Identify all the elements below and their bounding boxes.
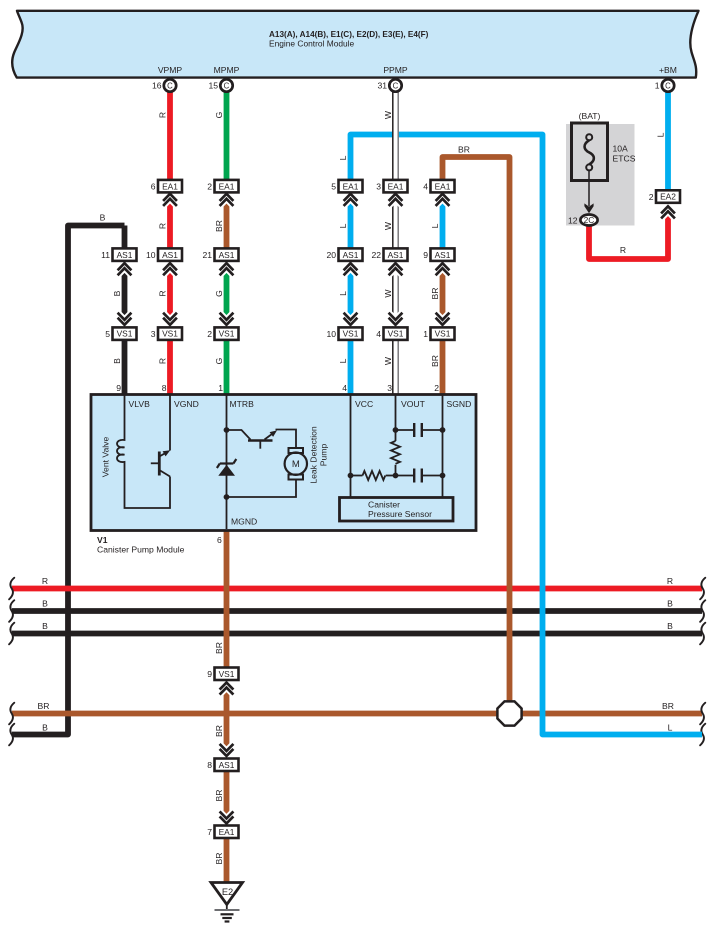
vent valve coil and VLVB internal wiring bbox=[117, 396, 170, 509]
svg-text:W: W bbox=[383, 356, 393, 365]
wire L blue from connector EA1-5 over x542.5 down and right to frame edge bbox=[351, 135, 703, 735]
svg-text:MTRB: MTRB bbox=[230, 399, 255, 409]
connector chevrons above AS1 pin 8 bbox=[220, 744, 234, 756]
svg-text:MGND: MGND bbox=[231, 517, 257, 527]
svg-text:EA1: EA1 bbox=[219, 181, 235, 191]
svg-text:B: B bbox=[112, 358, 122, 364]
pin 31 (C) PPMP bbox=[377, 79, 401, 91]
svg-text:BR: BR bbox=[214, 220, 224, 232]
ECM band (Engine Control Module) bbox=[12, 11, 698, 78]
svg-text:EA1: EA1 bbox=[435, 181, 451, 191]
connector chevrons below AS1 pin 20 bbox=[344, 263, 358, 275]
resistor R1 (vertical on VOUT) bbox=[391, 441, 400, 464]
connector VS1 pin 3 bbox=[151, 327, 182, 340]
svg-text:L: L bbox=[668, 722, 673, 732]
connector chevrons below EA2 pin 2 bbox=[661, 206, 675, 218]
svg-text:2: 2 bbox=[207, 329, 212, 339]
node junction SGND-C2 bbox=[440, 473, 446, 479]
svg-text:4: 4 bbox=[423, 181, 428, 191]
connector chevrons below EA1 pin 4 bbox=[436, 194, 450, 206]
connector VS1 pin 2 bbox=[207, 327, 238, 340]
pin 15 (C) MPMP bbox=[208, 79, 232, 91]
svg-text:2: 2 bbox=[434, 383, 439, 393]
transistor Q1 collector arrow bbox=[163, 450, 171, 456]
svg-text:3: 3 bbox=[387, 383, 392, 393]
break mark right end of black bus 1 bbox=[700, 600, 705, 622]
svg-text:15: 15 bbox=[208, 81, 218, 91]
connector chevrons above VS1 pin 3 bbox=[163, 313, 177, 325]
wire B black column x124.5 down to module pin 9 bbox=[122, 226, 128, 398]
svg-text:EA1: EA1 bbox=[162, 181, 178, 191]
svg-text:VOUT: VOUT bbox=[401, 399, 426, 409]
svg-text:B: B bbox=[42, 599, 48, 609]
fuse block background (junction block) bbox=[566, 124, 635, 226]
resistor R2 (VCC to VOUT horizontal) bbox=[351, 471, 396, 480]
node junction MTRB top bbox=[224, 427, 230, 433]
connector chevrons below EA1 pin 2 bbox=[220, 194, 234, 206]
capacitor C1 (VOUT to SGND upper) bbox=[396, 423, 443, 437]
svg-text:G: G bbox=[214, 357, 224, 364]
connector chevrons below VS1 pin 9 bbox=[220, 683, 234, 695]
svg-text:G: G bbox=[214, 111, 224, 118]
wire BR brown from AS1-9 to module pin 2 bbox=[440, 255, 446, 397]
svg-text:G: G bbox=[214, 290, 224, 297]
connector VS1 pin 4 bbox=[376, 327, 407, 340]
svg-text:VS1: VS1 bbox=[343, 329, 359, 339]
connector chevrons below EA1 pin 6 bbox=[163, 194, 177, 206]
svg-text:VPMP: VPMP bbox=[158, 65, 183, 75]
svg-text:C: C bbox=[665, 81, 671, 90]
svg-text:W: W bbox=[383, 110, 393, 119]
module V1 Canister Pump Module box bbox=[91, 395, 476, 531]
svg-text:9: 9 bbox=[207, 669, 212, 679]
wire R red from EA2 to fuse terminal 12 (2C) bbox=[589, 215, 668, 259]
svg-text:MPMP: MPMP bbox=[214, 65, 240, 75]
svg-text:AS1: AS1 bbox=[162, 250, 178, 260]
break mark left end of brown bus bbox=[9, 703, 14, 725]
connector EA1 pin 4 bbox=[423, 180, 454, 193]
connector EA2 pin 2 bbox=[649, 190, 680, 203]
svg-text:BR: BR bbox=[458, 144, 470, 154]
node VOUT internal wire lower bbox=[395, 465, 397, 476]
svg-text:R: R bbox=[158, 112, 168, 118]
pin 16 (C) VPMP bbox=[152, 79, 176, 91]
connector AS1 pin 20 bbox=[326, 248, 362, 261]
wire G green MPMP upper segment bbox=[224, 86, 230, 187]
connector VS1 pin 10 bbox=[326, 327, 362, 340]
node VGND internal wire bbox=[169, 396, 171, 451]
svg-text:4: 4 bbox=[376, 329, 381, 339]
connector chevrons above EA1 pin 7 bbox=[220, 811, 234, 823]
svg-text:6: 6 bbox=[217, 535, 222, 545]
wire L blue VCC column from EA1-5 down to module pin 4 bbox=[348, 186, 354, 397]
node junction VOUT-R2-C2 bbox=[393, 473, 399, 479]
svg-text:B: B bbox=[667, 599, 673, 609]
svg-text:B: B bbox=[667, 621, 673, 631]
svg-text:VS1: VS1 bbox=[219, 329, 235, 339]
svg-text:BR: BR bbox=[662, 701, 674, 711]
svg-text:R: R bbox=[667, 576, 673, 586]
svg-text:VS1: VS1 bbox=[117, 329, 133, 339]
svg-text:3: 3 bbox=[376, 181, 381, 191]
capacitor C2 (VOUT to SGND lower) bbox=[396, 469, 443, 483]
svg-text:L: L bbox=[338, 155, 348, 160]
svg-text:2: 2 bbox=[207, 181, 212, 191]
svg-text:VLVB: VLVB bbox=[129, 399, 151, 409]
svg-text:PPMP: PPMP bbox=[383, 65, 408, 75]
svg-text:Engine Control Module: Engine Control Module bbox=[269, 39, 355, 49]
node VCC internal wire bbox=[350, 396, 352, 498]
connector EA1 pin 5 bbox=[331, 180, 362, 193]
svg-text:(BAT): (BAT) bbox=[579, 111, 601, 121]
svg-text:11: 11 bbox=[101, 250, 110, 260]
svg-text:AS1: AS1 bbox=[219, 760, 235, 770]
transistor Q2 (pump motor driver) bbox=[227, 430, 297, 449]
break mark left end of black bus 2 bbox=[9, 623, 14, 645]
svg-text:V1: V1 bbox=[97, 535, 108, 545]
motor M (leak detection pump) bbox=[285, 448, 307, 480]
wire B black bus 2 horizontal y633.5 bbox=[12, 631, 702, 637]
svg-text:W: W bbox=[383, 221, 393, 230]
svg-text:R: R bbox=[158, 358, 168, 364]
zener diode D1 bbox=[217, 459, 236, 476]
wire BR brown bus horizontal y713.5 bbox=[12, 711, 702, 717]
break mark left end of red bus bbox=[9, 578, 14, 600]
svg-text:22: 22 bbox=[371, 250, 381, 260]
connector AS1 pin 11 bbox=[101, 248, 136, 261]
transistor Q1 (vent valve driver) bbox=[151, 452, 170, 477]
svg-text:21: 21 bbox=[202, 250, 212, 260]
svg-text:Pressure Sensor: Pressure Sensor bbox=[368, 509, 432, 519]
svg-text:1: 1 bbox=[423, 329, 428, 339]
svg-text:Canister: Canister bbox=[368, 500, 400, 510]
connector VS1 pin 9 bbox=[207, 668, 238, 681]
wire B black bus 1 horizontal y611 bbox=[12, 608, 702, 614]
break mark right end of red bus bbox=[700, 578, 705, 600]
connector chevrons below AS1 pin 10 bbox=[163, 263, 177, 275]
svg-text:BR: BR bbox=[38, 701, 50, 711]
break mark right end of black bus 2 bbox=[700, 623, 705, 645]
svg-text:C: C bbox=[393, 81, 399, 90]
svg-text:VS1: VS1 bbox=[162, 329, 178, 339]
svg-text:5: 5 bbox=[331, 181, 336, 191]
break mark left end of black bottom stub bbox=[9, 724, 14, 746]
svg-text:VS1: VS1 bbox=[388, 329, 404, 339]
svg-text:2C: 2C bbox=[584, 215, 595, 225]
junction connector (octagon) on brown bus bbox=[497, 701, 521, 725]
svg-text:6: 6 bbox=[151, 181, 156, 191]
wire R red bus horizontal y588.5 bbox=[12, 586, 702, 592]
connector chevrons below AS1 pin 9 bbox=[436, 263, 450, 275]
svg-text:BR: BR bbox=[430, 288, 440, 300]
svg-text:+BM: +BM bbox=[659, 65, 677, 75]
connector AS1 pin 22 bbox=[371, 248, 407, 261]
svg-text:L: L bbox=[656, 132, 666, 137]
svg-text:1: 1 bbox=[218, 383, 223, 393]
connector chevrons below AS1 pin 22 bbox=[389, 263, 403, 275]
svg-text:BR: BR bbox=[430, 355, 440, 367]
wire BR brown MGND column x226.5 module to ground bbox=[224, 528, 230, 884]
svg-text:EA1: EA1 bbox=[343, 181, 359, 191]
wire from fuse to terminal 12 bbox=[588, 170, 590, 206]
connector VS1 pin 5 bbox=[105, 327, 136, 340]
svg-text:12: 12 bbox=[568, 215, 578, 225]
svg-text:AS1: AS1 bbox=[388, 250, 404, 260]
svg-text:31: 31 bbox=[377, 81, 387, 91]
svg-text:10A: 10A bbox=[613, 144, 629, 154]
svg-text:BR: BR bbox=[214, 725, 224, 737]
canister pressure sensor box bbox=[340, 498, 454, 522]
connector AS1 pin 9 bbox=[423, 248, 454, 261]
wire motor to MGND bbox=[227, 480, 297, 498]
svg-text:20: 20 bbox=[326, 250, 336, 260]
fuse 10A ETCS body bbox=[572, 123, 608, 181]
svg-text:VCC: VCC bbox=[355, 399, 373, 409]
svg-text:8: 8 bbox=[207, 760, 212, 770]
svg-text:BR: BR bbox=[214, 642, 224, 654]
ground E2 bbox=[211, 883, 243, 922]
svg-text:VS1: VS1 bbox=[435, 329, 451, 339]
connector chevrons above VS1 pin 1 bbox=[436, 313, 450, 325]
svg-text:Pump: Pump bbox=[319, 444, 329, 467]
wire BR brown from connector EA1-4 up over to x509.5 down to junction bbox=[443, 157, 510, 714]
node SGND internal wire bbox=[442, 396, 444, 498]
connector EA1 pin 3 bbox=[376, 180, 407, 193]
svg-text:EA2: EA2 bbox=[660, 192, 676, 202]
svg-text:8: 8 bbox=[162, 383, 167, 393]
svg-text:L: L bbox=[338, 291, 348, 296]
node junction VCC-R2 bbox=[348, 473, 354, 479]
svg-text:R: R bbox=[158, 290, 168, 296]
svg-text:Leak Detection: Leak Detection bbox=[309, 426, 319, 484]
wire BR brown between EA1-2 and AS1-21 bbox=[224, 186, 230, 255]
svg-text:AS1: AS1 bbox=[219, 250, 235, 260]
svg-text:Vent Valve: Vent Valve bbox=[101, 437, 111, 478]
connector chevrons above VS1 pin 10 bbox=[344, 313, 358, 325]
svg-text:R: R bbox=[158, 223, 168, 229]
svg-text:VS1: VS1 bbox=[219, 669, 235, 679]
svg-text:4: 4 bbox=[342, 383, 347, 393]
node junction MGND bottom bbox=[224, 494, 230, 500]
break mark right end of blue bus bbox=[700, 724, 705, 746]
svg-text:10: 10 bbox=[326, 329, 336, 339]
node junction VOUT-C1 bbox=[393, 427, 399, 433]
connector AS1 pin 8 bbox=[207, 759, 238, 772]
connector chevrons above VS1 pin 5 bbox=[118, 313, 132, 325]
connector VS1 pin 1 bbox=[423, 327, 454, 340]
arrowhead into terminal 2C bbox=[584, 203, 593, 213]
node junction SGND-C1 bbox=[440, 427, 446, 433]
svg-text:BR: BR bbox=[214, 853, 224, 865]
connector EA1 pin 6 bbox=[151, 180, 182, 193]
svg-text:Canister Pump Module: Canister Pump Module bbox=[97, 545, 185, 555]
svg-text:W: W bbox=[383, 289, 393, 298]
svg-text:L: L bbox=[430, 223, 440, 228]
connector chevrons above VS1 pin 2 bbox=[220, 313, 234, 325]
svg-text:AS1: AS1 bbox=[435, 250, 451, 260]
connector chevrons below AS1 pin 21 bbox=[220, 263, 234, 275]
svg-text:AS1: AS1 bbox=[343, 250, 359, 260]
svg-text:9: 9 bbox=[116, 383, 121, 393]
connector chevrons below EA1 pin 5 bbox=[344, 194, 358, 206]
wire G green from AS1-21 to module pin 1 bbox=[224, 255, 230, 397]
svg-text:E2: E2 bbox=[222, 887, 233, 897]
svg-text:EA1: EA1 bbox=[388, 181, 404, 191]
wire B black from left frame to AS1-11 (vertical x68, horizontal y225.5, bottom stub y734.5) bbox=[12, 226, 125, 735]
connector AS1 pin 21 bbox=[202, 248, 238, 261]
svg-text:R: R bbox=[42, 576, 48, 586]
fuse element symbol bbox=[585, 134, 594, 170]
wire L blue between EA1-4 and AS1-9 bbox=[440, 186, 446, 255]
svg-text:BR: BR bbox=[214, 790, 224, 802]
connector AS1 pin 10 bbox=[146, 248, 182, 261]
pin 1 (C) +BM bbox=[655, 79, 674, 91]
svg-text:M: M bbox=[292, 459, 300, 470]
break mark right end of brown bus bbox=[700, 703, 705, 725]
svg-text:B: B bbox=[42, 722, 48, 732]
terminal 12 (2C) ellipse bbox=[568, 215, 598, 226]
wire W white PPMP column x395.5 (white wire with outline) bbox=[393, 86, 398, 398]
connector chevrons above VS1 pin 4 bbox=[389, 313, 403, 325]
svg-text:7: 7 bbox=[207, 827, 212, 837]
break mark left end of black bus 1 bbox=[9, 600, 14, 622]
svg-text:B: B bbox=[112, 290, 122, 296]
svg-text:AS1: AS1 bbox=[117, 250, 133, 260]
svg-text:B: B bbox=[42, 621, 48, 631]
node VOUT internal wire upper bbox=[395, 396, 397, 442]
svg-text:2: 2 bbox=[649, 192, 654, 202]
svg-text:R: R bbox=[620, 245, 626, 255]
connector chevrons below EA1 pin 3 bbox=[389, 194, 403, 206]
wire L blue from +BM pin to EA2 bbox=[665, 86, 671, 196]
svg-text:3: 3 bbox=[151, 329, 156, 339]
svg-text:L: L bbox=[338, 223, 348, 228]
svg-text:16: 16 bbox=[152, 81, 162, 91]
node MTRB/MGND internal wire bbox=[226, 396, 228, 530]
wire R red VPMP column x170 bbox=[167, 86, 173, 398]
connector EA1 pin 2 bbox=[207, 180, 238, 193]
connector chevrons below AS1 pin 11 bbox=[118, 263, 132, 275]
svg-text:EA1: EA1 bbox=[219, 827, 235, 837]
svg-text:B: B bbox=[100, 212, 106, 222]
label Leak Detection Pump bbox=[309, 426, 329, 484]
svg-text:C: C bbox=[167, 81, 173, 90]
svg-text:VGND: VGND bbox=[174, 399, 199, 409]
svg-text:SGND: SGND bbox=[447, 399, 472, 409]
svg-text:10: 10 bbox=[146, 250, 156, 260]
svg-text:5: 5 bbox=[105, 329, 110, 339]
svg-text:9: 9 bbox=[423, 250, 428, 260]
connector EA1 pin 7 bbox=[207, 826, 238, 839]
svg-text:C: C bbox=[224, 81, 230, 90]
svg-text:L: L bbox=[338, 358, 348, 363]
transistor Q2 emitter arrow bbox=[270, 430, 277, 437]
svg-text:1: 1 bbox=[655, 81, 660, 91]
svg-text:ETCS: ETCS bbox=[613, 154, 636, 164]
